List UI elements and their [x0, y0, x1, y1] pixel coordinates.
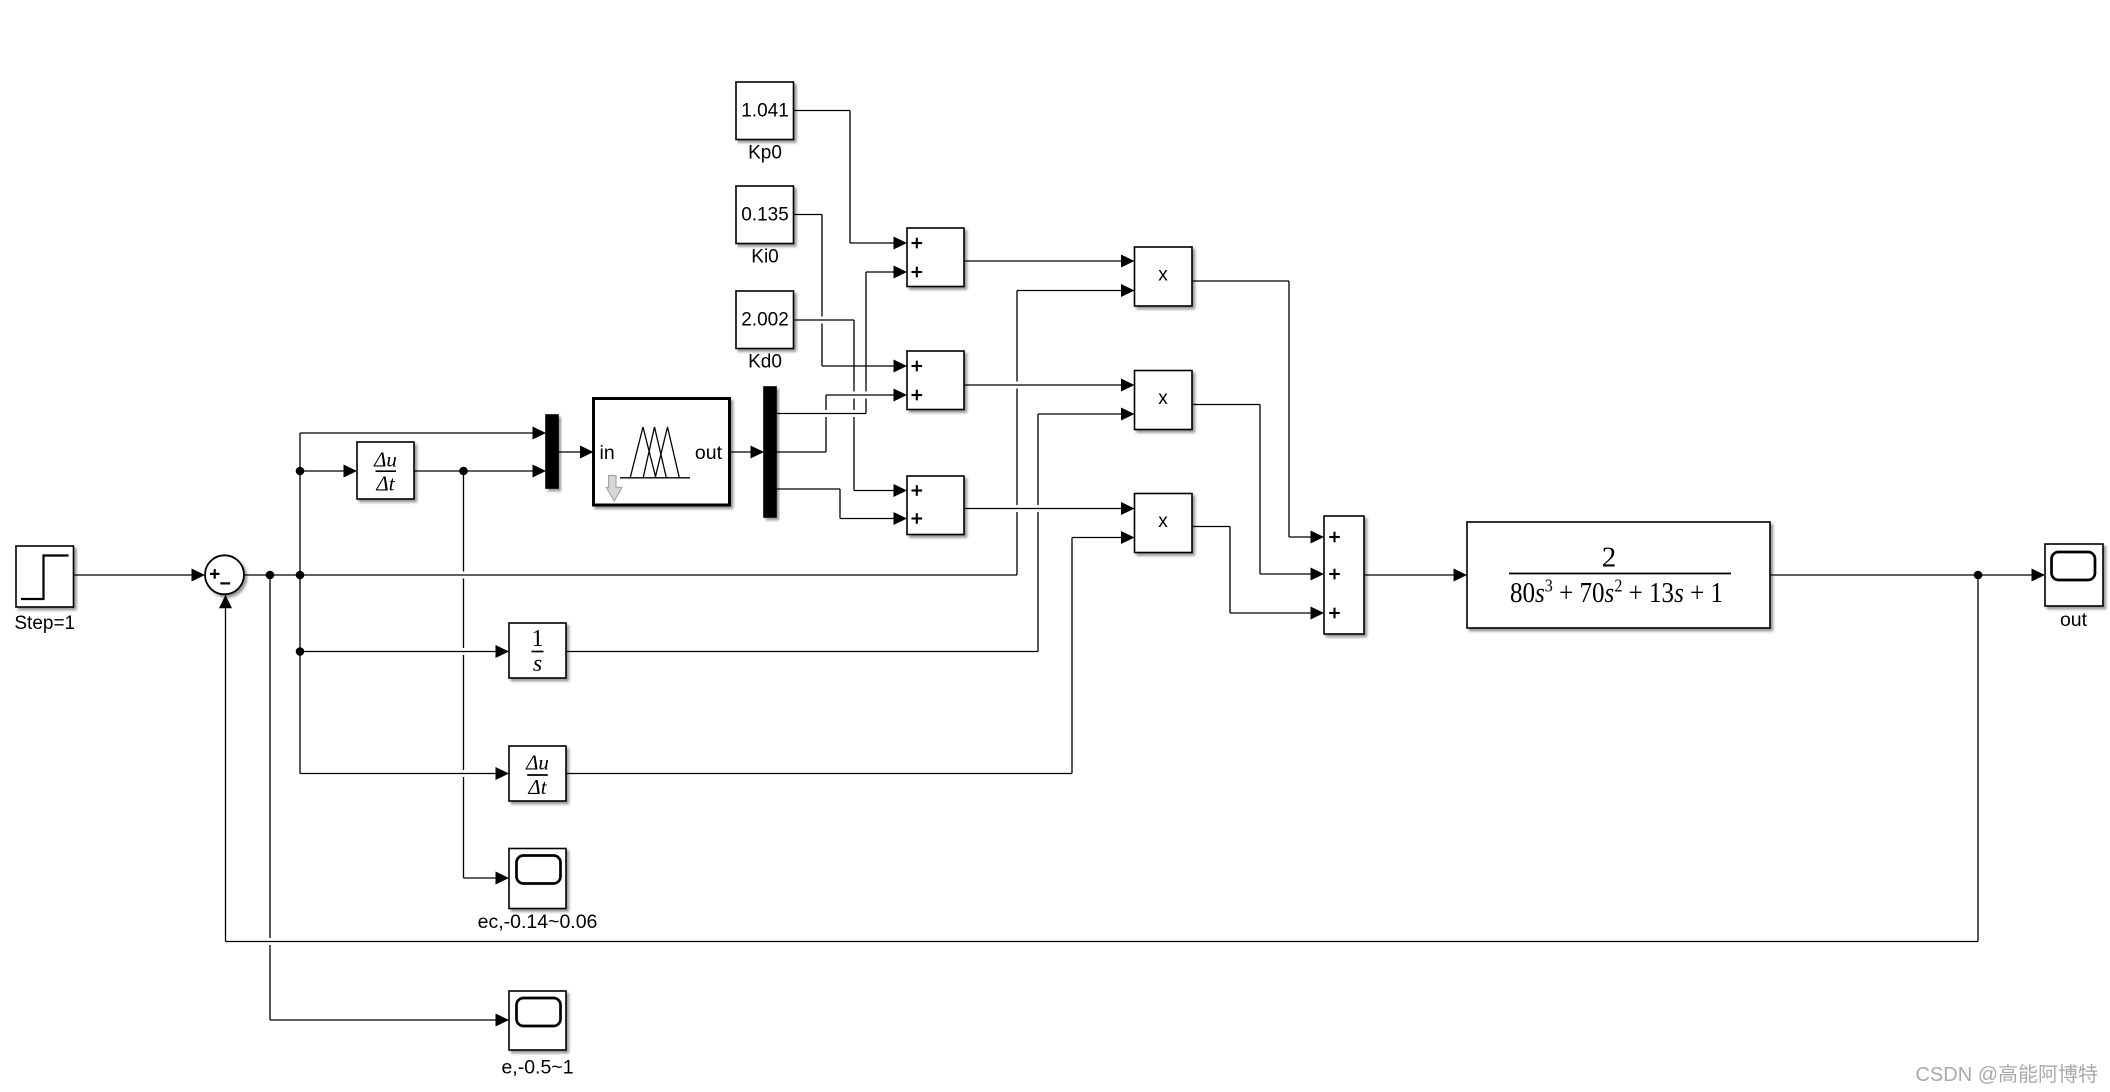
svg-text:0.135: 0.135 — [741, 205, 789, 226]
svg-text:Kp0: Kp0 — [748, 143, 782, 164]
svg-text:1.041: 1.041 — [741, 101, 789, 122]
svg-text:x: x — [1158, 265, 1168, 286]
svg-text:Ki0: Ki0 — [751, 247, 778, 268]
svg-text:2.002: 2.002 — [741, 310, 789, 331]
svg-text:Δu: Δu — [525, 751, 549, 775]
svg-text:s: s — [533, 651, 542, 677]
svg-text:Step=1: Step=1 — [14, 613, 75, 634]
svg-text:e,-0.5~1: e,-0.5~1 — [501, 1057, 573, 1079]
svg-text:ec,-0.14~0.06: ec,-0.14~0.06 — [478, 911, 598, 933]
svg-text:1: 1 — [532, 626, 544, 652]
svg-text:Δt: Δt — [375, 472, 395, 496]
svg-text:x: x — [1158, 388, 1168, 409]
svg-text:2: 2 — [1602, 542, 1617, 574]
svg-text:Kd0: Kd0 — [748, 352, 782, 373]
svg-text:x: x — [1158, 511, 1168, 532]
svg-text:out: out — [695, 442, 723, 464]
svg-text:CSDN @高能阿博特: CSDN @高能阿博特 — [1915, 1063, 2098, 1086]
svg-text:in: in — [600, 442, 615, 464]
svg-text:Δu: Δu — [373, 448, 397, 472]
svg-text:out: out — [2060, 609, 2088, 631]
svg-text:Δt: Δt — [527, 775, 547, 799]
